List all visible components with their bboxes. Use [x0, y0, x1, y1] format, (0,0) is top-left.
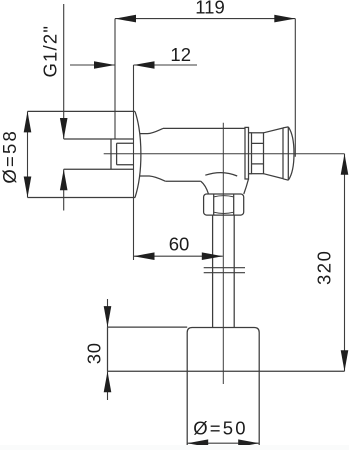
- wall flange curved right profile: [135, 111, 141, 197]
- dimension 12 left line: [70, 64, 115, 66]
- dimension 320 line: [344, 154, 346, 372]
- wall flange top edge: [28, 110, 136, 112]
- extension line left of 119/12: [114, 19, 116, 139]
- thread nipple outer left edge: [110, 139, 112, 169]
- ribbed ring: [252, 133, 264, 174]
- dimension 60 left arrowhead: [134, 252, 155, 260]
- elbow crotch arc: [205, 173, 237, 176]
- horizontal center line: [104, 153, 345, 155]
- elbow right curve: [244, 179, 249, 194]
- button cone bottom: [264, 174, 284, 179]
- dimension 60 right arrowhead: [202, 252, 223, 260]
- button rim inner edge: [282, 128, 284, 179]
- G1/2 leader line lower: [63, 169, 65, 210]
- faint page-edge strip: [0, 445, 349, 450]
- dimension D50 right arrowhead: [238, 439, 259, 447]
- dimension 320 bottom arrowhead: [341, 350, 349, 371]
- dimension 320 top arrowhead: [341, 154, 349, 175]
- valve body top: [163, 127, 245, 129]
- dimension D50 line: [187, 442, 259, 444]
- valve neck top: [140, 128, 163, 133]
- inlet thread bore outline: [64, 139, 134, 169]
- pipe union lower line: [204, 272, 245, 274]
- dimension D50 left arrowhead: [187, 439, 208, 447]
- hex nut chamfer arcs: [214, 196, 234, 214]
- ribbed ring band lines: [252, 143, 264, 164]
- svg-text:60: 60: [169, 234, 190, 255]
- svg-text:320: 320: [314, 250, 335, 285]
- dimension D58 line: [27, 111, 29, 197]
- dimension 119 line: [115, 18, 295, 20]
- dimension 12 left arrowhead: [94, 61, 115, 69]
- hex nut outline: [204, 194, 244, 215]
- svg-text:Ø=58: Ø=58: [0, 129, 20, 184]
- button rim outer edge: [287, 127, 289, 180]
- pipe union upper line: [204, 267, 245, 269]
- wall flange face line / extension of 12 and 60: [133, 65, 135, 260]
- dimension 30 upper arrowhead: [104, 306, 112, 327]
- valve body bottom: [165, 180, 201, 182]
- svg-text:G1/2": G1/2": [39, 25, 60, 78]
- dimension D58 top arrowhead: [24, 111, 32, 132]
- hex nut face edges: [214, 194, 234, 215]
- G1/2 leader line upper: [63, 4, 65, 139]
- svg-text:119: 119: [195, 0, 225, 18]
- vertical center line of down pipe: [222, 123, 224, 384]
- button cone top: [264, 128, 284, 133]
- G1/2 upper arrowhead: [60, 118, 68, 139]
- wall band bottom edge / extension of 320: [108, 370, 345, 372]
- button dome arc: [288, 127, 294, 180]
- wall flange bottom edge: [28, 197, 136, 199]
- dimension 119 left arrowhead: [115, 15, 136, 23]
- extension line right of 119: [294, 19, 296, 157]
- dimension D58 bottom arrowhead: [24, 177, 32, 198]
- svg-text:30: 30: [83, 342, 104, 364]
- svg-text:12: 12: [170, 44, 191, 65]
- body end ring: [245, 127, 249, 179]
- dimension 12 right line: [134, 64, 198, 66]
- G1/2 lower arrowhead: [60, 169, 68, 190]
- dimension 119 right arrowhead: [274, 15, 295, 23]
- valve neck bottom: [140, 176, 166, 181]
- dimension 30 lower arrowhead: [104, 371, 112, 392]
- elbow left curve: [201, 181, 209, 194]
- outlet escutcheon rounded top: [187, 328, 259, 448]
- wall band top edge: [108, 326, 188, 328]
- dimension 60 line: [134, 255, 223, 257]
- dimension 30 lower line: [107, 371, 109, 400]
- down pipe left edge: [212, 215, 214, 327]
- dimension 12 right arrowhead: [134, 61, 155, 69]
- down pipe right edge: [233, 215, 235, 327]
- connector to ribbed ring: [249, 133, 252, 174]
- svg-text:Ø=50: Ø=50: [193, 418, 248, 439]
- thread nipple root lines: [117, 143, 134, 164]
- dimension 30 upper line: [107, 299, 109, 327]
- button rim top joins: [283, 127, 288, 180]
- wall band left edge: [107, 327, 109, 371]
